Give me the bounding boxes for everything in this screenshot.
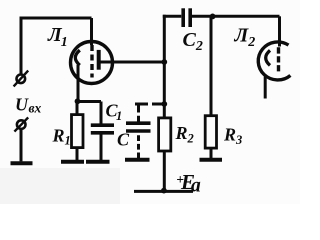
node: R3 top junction: [210, 14, 216, 20]
resistor R1 lead top: [76, 101, 79, 115]
resistor R3: [205, 116, 216, 148]
resistor R1: [72, 115, 84, 148]
svg-text:С: С: [117, 130, 130, 150]
wire +Ea rail: [134, 190, 193, 193]
node: cathode junction: [75, 98, 81, 104]
wire top-left horizontal: [20, 17, 92, 20]
wire grid lead of U2 (Л2): [278, 16, 281, 46]
wire C1 top lead: [100, 102, 103, 124]
node: anode junction: [161, 59, 167, 65]
tube U2 grid (dashed): [277, 47, 280, 71]
node: +Ea junction: [161, 188, 167, 194]
paper background: [0, 0, 300, 204]
resistor R2 lead bottom: [163, 151, 166, 191]
wire C1 bottom lead: [100, 135, 103, 161]
wire R3 branch: [210, 16, 213, 115]
wire top to C2: [163, 15, 182, 18]
wire cathode node to C1: [77, 100, 102, 103]
capacitor C1 plates: [91, 123, 114, 127]
tube U2 cathode arc: [266, 50, 270, 65]
node: dashed C junction: [161, 101, 167, 107]
wire input terminal 2 to ground: [20, 129, 23, 161]
tube U1 anode bar: [97, 50, 101, 70]
tube U2 cathode lead: [264, 77, 267, 99]
ground (C): [125, 158, 150, 162]
wire main vertical (anode node to R2): [163, 15, 166, 118]
tube U1 cathode lead: [77, 65, 80, 101]
capacitor C dashed link to node: [135, 103, 163, 106]
wire C2 to tube U2: [192, 15, 280, 18]
ground (C1): [86, 160, 110, 164]
input terminal 1: [17, 75, 26, 84]
capacitor C plates: [126, 121, 151, 125]
ground (input): [11, 161, 33, 165]
input terminal 2: [17, 120, 26, 129]
resistor R2: [159, 118, 171, 151]
wire left vertical to input: [20, 17, 23, 75]
ground (R1): [61, 160, 84, 164]
ground (R3): [200, 158, 223, 162]
resistor R1 lead bottom: [76, 148, 79, 160]
wire anode lead of U1: [100, 61, 164, 64]
capacitor C dashed bottom lead: [137, 135, 140, 158]
tube U1 (Л1) envelope: [71, 42, 113, 84]
capacitor C dashed top lead: [137, 105, 140, 122]
wire grid lead of U1 (Л1): [90, 18, 93, 45]
tube U2 (Л2) envelope arc: [258, 42, 290, 80]
resistor R3 lead bottom: [210, 148, 213, 158]
capacitor C2 plates: [181, 8, 185, 27]
svg-text:а: а: [191, 176, 201, 197]
tube U1 cathode arc: [75, 50, 80, 65]
tube U1 grid (dashed): [90, 45, 93, 78]
